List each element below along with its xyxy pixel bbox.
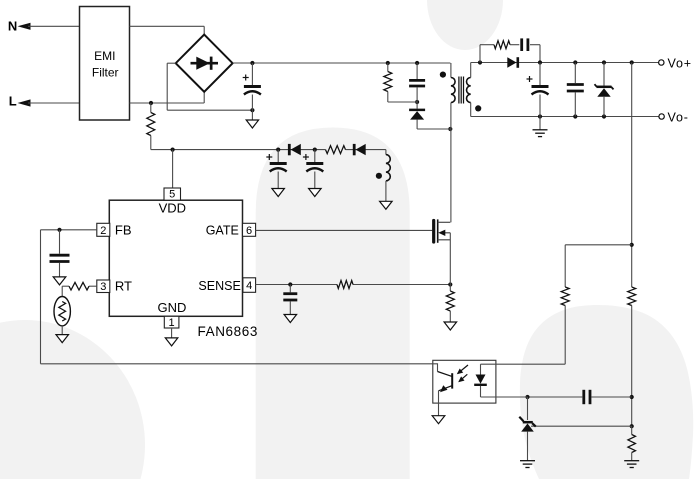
- svg-text:4: 4: [246, 280, 252, 292]
- svg-text:L: L: [9, 93, 17, 108]
- svg-text:Filter: Filter: [92, 66, 119, 80]
- svg-text:FB: FB: [115, 222, 132, 237]
- svg-text:5: 5: [169, 188, 175, 200]
- svg-text:1: 1: [169, 317, 175, 329]
- svg-text:3: 3: [100, 281, 106, 293]
- svg-text:RT: RT: [115, 279, 132, 294]
- svg-text:N: N: [8, 19, 17, 34]
- svg-text:6: 6: [246, 225, 252, 237]
- svg-text:Vo-: Vo-: [668, 110, 689, 124]
- svg-text:Vo+: Vo+: [668, 56, 692, 70]
- svg-text:2: 2: [100, 225, 106, 237]
- svg-text:VDD: VDD: [159, 200, 186, 215]
- svg-text:GND: GND: [157, 300, 186, 315]
- svg-text:SENSE: SENSE: [198, 279, 240, 293]
- svg-text:FAN6863: FAN6863: [198, 324, 259, 339]
- svg-text:EMI: EMI: [94, 49, 115, 63]
- svg-text:GATE: GATE: [206, 223, 239, 237]
